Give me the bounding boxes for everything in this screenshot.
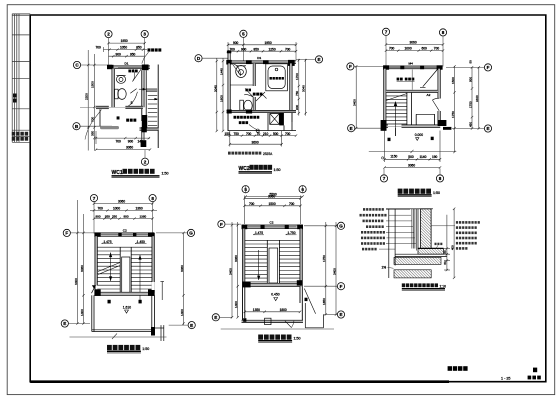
threshold box [265,318,271,324]
svg-text:F: F [220,222,223,227]
section finished-face verticals [389,209,395,278]
svg-text:F: F [349,64,352,69]
axis extension lines WC2 [202,37,316,198]
axis bubble 7 top-left of stair2 [90,195,97,202]
svg-text:8: 8 [151,196,154,201]
svg-text:1400: 1400 [80,309,84,316]
svg-text:700: 700 [285,132,291,136]
lower room washing machine label [117,116,137,121]
svg-text:1950: 1950 [265,41,272,45]
svg-text:3600: 3600 [252,140,259,144]
svg-text:3060: 3060 [268,194,275,198]
svg-text:1350: 1350 [253,308,260,312]
WC1 top wall [107,65,150,71]
svg-text:1.750: 1.750 [288,231,296,235]
up-down arrows stair2 [111,253,140,302]
svg-text:E: E [486,126,489,131]
svg-text:2: 2 [107,32,110,37]
floor drain leader curve [85,110,102,140]
right notes leader [431,225,455,227]
WC2 top wall [226,60,296,66]
svg-text:G: G [189,231,193,236]
svg-text:1250: 1250 [269,47,276,51]
svg-text:8: 8 [439,176,442,181]
note line under WC2 plan [228,152,261,155]
stair3 top wall [242,225,304,230]
svg-text:1600: 1600 [219,95,223,102]
svg-text:3060: 3060 [410,41,417,45]
axis bubble E left-lower of stair3 [212,314,219,321]
svg-text:1.610: 1.610 [123,305,131,309]
WC2 wall stub above top-left corner [228,51,230,61]
svg-text:1:50: 1:50 [162,172,169,176]
stair1 bottom dimension row 1 [382,131,442,163]
title bar text: examiners [448,366,541,379]
svg-text:900: 900 [96,215,101,219]
stair right-side arrow [154,98,158,100]
svg-text:350: 350 [91,131,95,136]
WC1 stair treads [148,95,157,125]
sign-off table stamp glyphs [12,94,28,141]
porch interior note [397,78,415,81]
svg-text:C2: C2 [123,228,127,232]
svg-text:850: 850 [136,46,142,50]
axis bubble F right-upper of stair1 [484,64,491,71]
svg-text:7: 7 [383,176,386,181]
WC1 top dimension row 1 [107,42,146,44]
svg-text:3400: 3400 [332,268,336,275]
svg-text:3040: 3040 [213,85,217,92]
svg-text:3400: 3400 [74,278,78,285]
note leader [142,52,149,63]
svg-text:900: 900 [124,215,129,219]
svg-text:1750: 1750 [468,101,472,108]
axis bubble 6 bottom-right of WC2 [299,186,306,193]
landing level labels [102,243,114,244]
svg-text:G: G [339,224,343,229]
svg-text:1:50: 1:50 [433,191,440,195]
kerb note [435,243,443,245]
stair1 right wall [438,66,440,125]
svg-text:400: 400 [451,245,455,250]
stair2 right vertical dim [182,232,184,325]
lower room side walls stair3 [243,287,303,320]
stair2 top wall [94,232,154,236]
porch corner column [151,327,155,336]
svg-text:1140: 1140 [420,155,427,159]
svg-text:WC1: WC1 [112,170,123,176]
svg-text:E: E [190,323,193,328]
WC1 top dimension row 2 [104,47,148,52]
landing leader with arrow [139,88,147,91]
axis bubble E right-lower of stair1 [484,125,491,132]
WC1 bottom dimension row 2 [95,148,151,150]
svg-text:1500: 1500 [451,77,455,84]
svg-text:1360: 1360 [140,215,147,219]
stair2 left vertical dims [76,200,84,325]
soil hatched band [394,270,431,278]
stair2 top dimension row 1 [93,202,154,204]
svg-text:950: 950 [130,52,136,56]
stair1 left vertical dim [355,65,357,129]
stair3 bottom wall [242,318,304,322]
WC1 middle wall [80,106,143,108]
svg-text:1650: 1650 [322,298,326,305]
svg-text:3060: 3060 [180,265,184,272]
right wall door gap [152,282,155,290]
tread break diagonals left flight [98,263,120,275]
svg-text:250: 250 [112,215,117,219]
axis bubble B left-lower of WC1 [73,123,80,130]
axis bubble D left of WC2 [195,55,202,62]
entry door swing (top) [133,69,142,82]
stair3 bottom stair wall [243,280,303,287]
stair outer wall right [157,65,159,149]
svg-text:1700: 1700 [295,73,299,80]
svg-text:5: 5 [242,32,245,37]
WC2 left wall [228,61,230,131]
svg-text:3060: 3060 [118,200,125,204]
svg-text:2200: 2200 [84,93,88,100]
svg-text:1.450: 1.450 [137,240,145,244]
stair well walls [407,92,435,126]
svg-text:2: 2 [144,159,147,164]
room label bathroom [128,70,137,73]
stair1 left wall [384,66,386,130]
direction labels [108,300,142,304]
svg-text:1800: 1800 [280,308,287,312]
WC2 interior partition vertical [253,63,255,110]
bottom door swing stair3 [285,321,294,328]
axis bubble E right-lower of stair2 [188,322,195,329]
axis bubble G right-upper of stair2 [187,229,194,236]
svg-text:700: 700 [285,47,291,51]
svg-text:1750: 1750 [451,111,455,118]
stair3 top dimension row 1 [243,196,301,225]
right column block at lower room [142,115,147,128]
axis extension lines stair3 [219,224,337,329]
svg-text:8: 8 [442,30,445,35]
WC2 floor drain label [245,89,251,92]
stair3 title [258,335,300,343]
shaft wall black [279,113,284,126]
axis bubble 2 bottom of WC1 [141,158,148,165]
porch outline right stair3 [305,303,323,328]
WC2 left vertical dims [216,58,225,132]
wall finish layer lines [412,209,417,251]
vent shaft with X [270,114,280,125]
svg-text:0.450: 0.450 [271,293,279,297]
stair2 treads right flight [131,255,152,289]
axis bubble G right-upper of stair3 [337,222,344,229]
svg-text:450: 450 [468,122,472,127]
axis extension lines stair1 [354,35,485,175]
svg-text:700: 700 [289,202,295,206]
svg-text:1 - 25: 1 - 25 [501,377,510,381]
axis bubble 8 top-right of stair2 [149,195,156,202]
svg-text:7: 7 [385,30,388,35]
axis bubble F right-middle of stair3 [337,283,344,290]
svg-text:850: 850 [254,47,260,51]
svg-text:1.475: 1.475 [104,240,112,244]
svg-text:900: 900 [295,105,299,110]
inner door swing to lower room [126,89,138,108]
svg-text:900: 900 [468,77,472,82]
stair2 landing lines [97,247,152,251]
WC2 bottom dimension row 1 [224,134,297,136]
stair3 top dimension row 2 [243,205,301,207]
WC2 title [239,165,281,174]
floor screed hatched band [394,257,441,264]
left note lines (8 rows of tiny text) [360,208,387,250]
svg-text:500: 500 [273,132,279,136]
stair2 title [107,345,149,353]
lower walls WC2 [228,113,296,131]
svg-text:1500: 1500 [91,81,95,88]
stair1 title [398,189,440,197]
WC2 room label [253,93,263,96]
svg-text:700: 700 [246,132,252,136]
stair1 middle wall [386,90,438,92]
section title [402,283,446,290]
direction label up [388,138,391,141]
svg-text:1400: 1400 [234,301,238,308]
axis bubble E right-lower of stair3 [337,311,344,318]
WC2 top dimension row 2 [227,50,297,52]
svg-text:750: 750 [234,132,240,136]
WC1 title [112,169,169,178]
porch door leaf diagonal [423,70,438,87]
up arrow stair1 [395,104,397,136]
axis bubble 7 top-left of stair1 [382,28,389,35]
WC1 left dimension lines [87,50,96,151]
svg-text:750: 750 [295,91,299,96]
stair3 well [267,240,279,283]
axis extension lines WC1 [80,38,145,159]
sign-off table top frame continuation [12,14,30,16]
svg-text:M4: M4 [409,61,414,65]
axis bubble E left-lower of stair1 [348,125,355,132]
svg-text:700: 700 [98,207,104,211]
brick wall hatched [418,209,431,249]
S label right of stair3 [305,298,308,301]
svg-text:3060: 3060 [408,164,415,168]
floor drain symbol [256,129,259,132]
WC2 door swings [232,63,267,101]
right dim line outer [453,208,455,280]
svg-text:1500: 1500 [269,202,276,206]
WC1 right wall (to stair) [142,70,144,121]
svg-text:D1: D1 [125,62,129,66]
bottom wall door gap [388,125,402,128]
svg-text:80: 80 [443,261,447,265]
svg-text:1000: 1000 [405,47,412,51]
svg-text:5: 5 [131,101,133,105]
bathtub [266,64,288,91]
door swing right side [432,98,439,111]
svg-text:3060: 3060 [234,255,238,262]
svg-text:E: E [214,315,217,320]
stair3 treads left flight [245,248,267,282]
svg-text:350: 350 [105,215,110,219]
stair2 top dimension row 3 [93,217,154,219]
right dim line inner [444,215,450,272]
axis bubble 8 bottom-right of stair1 [436,175,443,182]
stair3 landing labels [253,234,264,235]
WC1 stair landing edge [146,89,157,91]
svg-text:F: F [65,231,68,236]
svg-text:D1: D1 [257,56,261,60]
WC2 washbasin [236,66,247,78]
stair1 bottom wall [381,120,452,131]
svg-text:1000: 1000 [113,207,120,211]
left door leaf at bottom [92,286,96,294]
svg-text:1:50: 1:50 [294,337,301,341]
stair1 top dimension row 2 [385,49,444,51]
lower wall stubs [100,109,144,140]
svg-text:700: 700 [96,46,102,50]
axis bubble 3 top-right of WC1 [141,30,148,37]
svg-text:70: 70 [257,132,261,136]
stair2 bottom wall [94,289,154,296]
svg-text:E: E [339,312,342,317]
lower jamb block [141,140,147,147]
entrance step side walls [155,325,164,341]
svg-text:1150: 1150 [390,155,397,159]
stair left edge double line [145,70,147,128]
svg-text:210: 210 [263,132,269,136]
WC2 middle wall [227,110,297,114]
svg-text:140: 140 [138,140,144,144]
axis bubble 5 top of WC2 [240,30,247,37]
axis bubble F left-upper of stair1 [347,63,354,70]
svg-text:3040: 3040 [302,85,306,92]
axis bubble E left-lower of stair2 [61,320,68,327]
note leader lines [379,209,416,249]
axis bubble E right of WC2 [315,56,322,63]
stair2 treads left flight [97,255,120,289]
svg-text:190: 190 [432,155,438,159]
svg-text:1050: 1050 [120,46,127,50]
svg-text:700: 700 [249,202,255,206]
shower divider line [230,84,253,86]
stair1 top wall [383,65,443,69]
svg-text:0.000: 0.000 [415,133,423,137]
svg-text:3400: 3400 [475,95,479,102]
floor slab lines [395,254,447,256]
svg-text:E: E [350,126,353,131]
level triangle marker at left wall [92,285,96,289]
frame bottom thick segment [30,380,449,383]
WC1 left wall [112,66,114,107]
washing machine / threshold bar [100,126,119,129]
kerb waterproof membrane line [418,247,444,249]
WC2 right vertical dims [298,59,307,116]
porch ground line [70,334,167,340]
axis bubble 2 top-left of WC1 [105,30,112,37]
stair2 top dimension row 2 [90,209,157,211]
svg-text:3400: 3400 [353,99,357,106]
stair3 left vertical dims [231,222,239,319]
ground axis line with break [369,150,457,153]
WC1 roof-leak note top-right [148,48,162,51]
svg-text:1:10: 1:10 [440,284,447,288]
svg-text:2525A: 2525A [263,152,273,156]
direction label down [431,137,434,140]
stair2 left wall [95,233,97,295]
WC1 bottom dimension row 1 [95,131,150,144]
WC2 right wall [290,61,292,122]
svg-text:C2: C2 [270,220,274,224]
svg-text:900: 900 [241,47,247,51]
stair3 right wall [300,225,302,287]
svg-text:700: 700 [434,47,440,51]
skirting kerb hatched [418,249,444,255]
axis bubble F left-upper of stair3 [218,221,225,228]
washbasin [116,75,125,83]
bathtub size label [270,77,284,80]
svg-text:900: 900 [116,52,122,56]
svg-text:900: 900 [233,41,239,45]
svg-text:1.475: 1.475 [255,231,263,235]
svg-text:E: E [63,321,66,326]
svg-text:3060: 3060 [80,265,84,272]
svg-text:3400: 3400 [228,268,232,275]
stair1 top dimension row 1 [385,43,444,45]
svg-text:700: 700 [389,47,395,51]
WC2 bottom dimension row 2 [229,131,283,147]
WC1 bottom wall [140,127,159,132]
stair1 right vertical dims [453,65,480,153]
svg-text:3: 3 [143,32,146,37]
svg-text:1%: 1% [382,265,387,269]
WC2 toilet [240,100,252,111]
masonry note leader [249,125,257,130]
sign-off table (top-left, rotated title strip) [12,14,30,143]
masonry note text [234,116,260,124]
tread break diagonal [386,94,407,101]
stair2 right wall [152,233,154,295]
stair1 treads [386,96,407,124]
svg-text:F: F [487,65,490,70]
porch below stair2 [92,295,155,331]
svg-text:WC2: WC2 [239,166,250,172]
axis bubble 5 bottom-left of WC2 [242,186,249,193]
WC1 top dimension row 3 [109,55,145,57]
porch divider line [411,70,413,90]
toilet [115,89,127,100]
svg-text:700: 700 [116,140,122,144]
axis bubble F left-upper of stair2 [63,229,70,236]
svg-text:600: 600 [422,47,428,51]
svg-text:7: 7 [93,196,96,201]
stair3 right vertical dims [325,222,338,316]
down arrow stair3 [258,250,260,280]
svg-text:F: F [340,284,343,289]
axis bubble 7 bottom-left of stair1 [380,175,387,182]
axis bubble C left-upper of WC1 [73,61,80,68]
svg-text:500: 500 [408,155,414,159]
svg-text:1:50: 1:50 [274,168,281,172]
svg-text:900: 900 [128,140,134,144]
stair2 well [120,247,131,294]
right door swing stair3 [304,289,315,314]
svg-text:150: 150 [225,132,231,136]
svg-text:1360: 1360 [136,207,143,211]
interior dim line stair3 [244,311,302,313]
stair3 treads right flight [279,248,300,282]
svg-text:60: 60 [443,250,447,254]
